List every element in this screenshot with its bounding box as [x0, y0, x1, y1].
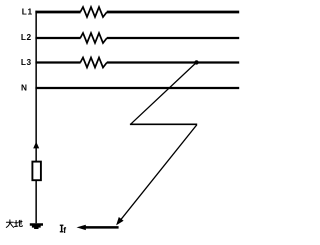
- wire fault bolt upper diagonal: [131, 62, 197, 124]
- ground symbol (earth): [30, 223, 43, 229]
- svg-text:L3: L3: [21, 57, 32, 67]
- resistor RE (earthing resistance box): [32, 162, 41, 181]
- wire fault bolt lower diagonal: [121, 125, 197, 219]
- svg-text:L2: L2: [21, 32, 32, 42]
- wire L2 left segment: [35, 37, 80, 39]
- label 大地 (earth) drawn as strokes: [6, 220, 22, 228]
- wire vertical earthing conductor: [35, 11, 37, 224]
- svg-text:N: N: [21, 83, 27, 93]
- wire L3 right segment: [107, 61, 239, 63]
- resistor on L3: [80, 58, 107, 68]
- wire N line: [35, 87, 239, 89]
- svg-text:f: f: [63, 225, 66, 235]
- fault current arrow If (points left): [85, 226, 118, 229]
- arrowhead of fault bolt (points down-left): [116, 217, 124, 225]
- wire fault bolt horizontal segment: [130, 123, 197, 125]
- resistor on L1: [80, 7, 107, 17]
- wire L3 left segment: [35, 61, 80, 63]
- current direction arrow (up) on earthing conductor: [33, 142, 39, 149]
- junction node on L3 (fault point): [194, 60, 198, 64]
- wire L2 right segment: [107, 37, 239, 39]
- resistor on L2: [80, 33, 107, 43]
- wire L1 left segment: [35, 11, 80, 14]
- svg-text:L1: L1: [22, 6, 33, 16]
- label If: [60, 225, 64, 233]
- wire L1 right segment: [107, 11, 239, 14]
